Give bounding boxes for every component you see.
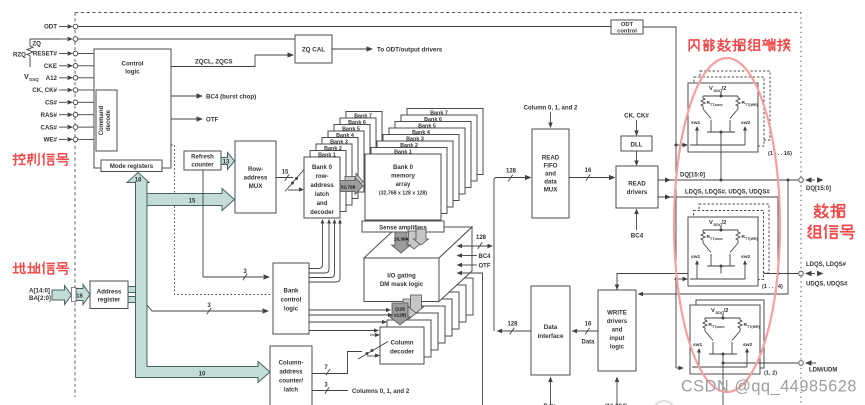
svg-text:BC4: BC4 xyxy=(479,254,492,260)
svg-text:CK, CK#: CK, CK# xyxy=(32,87,57,94)
svg-text:drivers: drivers xyxy=(627,189,648,196)
svg-text:address: address xyxy=(310,182,334,189)
svg-text:Bank 4: Bank 4 xyxy=(336,133,354,139)
svg-text:WE#: WE# xyxy=(44,137,58,144)
READ drivers xyxy=(616,166,658,208)
svg-text:Bank 0: Bank 0 xyxy=(312,164,333,171)
wire to ODT/output drivers xyxy=(332,48,367,50)
I/O gating DM mask logic 3D box xyxy=(364,227,472,258)
svg-text:Data: Data xyxy=(544,324,558,331)
bank 0-7 row-address latch and decoder stack xyxy=(346,112,382,173)
svg-text:Column: Column xyxy=(390,340,413,347)
svg-text:LDM/UDM: LDM/UDM xyxy=(809,368,837,374)
svg-text:Bank 7: Bank 7 xyxy=(430,110,448,116)
wire term3 center tap to DM and down xyxy=(722,354,724,405)
svg-text:13: 13 xyxy=(223,159,230,165)
svg-text:counter: counter xyxy=(191,162,214,169)
bottom feed wires xyxy=(550,382,552,405)
svg-text:15: 15 xyxy=(282,170,289,176)
wire ZQ to ZQ CAL xyxy=(78,38,295,40)
svg-text:register: register xyxy=(98,297,121,304)
svg-text:control: control xyxy=(281,297,302,304)
READ FIFO and data MUX xyxy=(532,129,569,218)
wire DLL to READ drivers xyxy=(636,151,638,161)
red highlight ellipse xyxy=(674,58,780,392)
svg-text:decoder: decoder xyxy=(390,349,415,356)
DQS output wire xyxy=(658,197,778,271)
wire refresh/bank-address down to bank control (3) xyxy=(202,170,204,277)
svg-text:READ: READ xyxy=(628,180,646,187)
svg-text:Refresh: Refresh xyxy=(191,154,214,161)
svg-text:(128: (128 xyxy=(395,306,405,312)
svg-text:array: array xyxy=(396,181,412,188)
svg-text:TT(WR): TT(WR) xyxy=(747,325,761,329)
svg-text:V: V xyxy=(709,86,713,92)
DLL xyxy=(621,136,652,151)
pad LDM/UDM xyxy=(799,361,804,366)
svg-text:Bank 7: Bank 7 xyxy=(354,113,372,119)
svg-text:32,768: 32,768 xyxy=(341,184,356,190)
refresh counter xyxy=(184,151,221,170)
bank control logic xyxy=(273,263,309,334)
svg-text:V: V xyxy=(709,220,713,226)
svg-text:LDQS, LDQS#, UDQS, UDQS#: LDQS, LDQS#, UDQS, UDQS# xyxy=(685,190,770,196)
command decode xyxy=(96,90,117,151)
svg-text:CK, CK#: CK, CK# xyxy=(624,113,649,120)
address bus 15 band into row-address MUX xyxy=(147,189,235,211)
address bus vertical band + 18 arrow into mode registers xyxy=(127,173,270,383)
svg-text:logic: logic xyxy=(610,344,625,351)
pin ZQ xyxy=(60,38,67,40)
ODT control block xyxy=(611,20,643,34)
svg-text:To ODT/output drivers: To ODT/output drivers xyxy=(377,47,443,54)
16 wire READ FIFO to READ drivers xyxy=(569,177,610,179)
svg-text:Bank 6: Bank 6 xyxy=(348,120,366,126)
svg-text:address: address xyxy=(244,175,268,182)
128 bidirectional bus I/O gating to data bus xyxy=(462,245,488,247)
svg-text:/2: /2 xyxy=(722,86,727,92)
svg-text:UDQS, UDQS#: UDQS, UDQS# xyxy=(806,282,848,288)
svg-text:FIFO: FIFO xyxy=(544,163,558,170)
svg-text:Control: Control xyxy=(122,61,144,68)
LDM/UDM pad wire xyxy=(723,362,798,364)
red annotation: control signals xyxy=(13,154,25,165)
svg-text:/2: /2 xyxy=(722,220,727,226)
bank 0 memory array front xyxy=(365,154,441,220)
svg-text:latch: latch xyxy=(284,387,299,394)
wire address register to bank control (3) xyxy=(147,305,262,311)
svg-text:Bank: Bank xyxy=(284,288,300,295)
svg-text:Columns 0, 1, and 2: Columns 0, 1, and 2 xyxy=(352,388,410,395)
mode registers xyxy=(101,160,162,172)
pad DQ[15:0] xyxy=(799,178,804,183)
128 bus wire to READ FIFO xyxy=(494,178,526,332)
row-address MUX xyxy=(235,141,276,213)
svg-text:ODT: ODT xyxy=(621,22,634,28)
red annotation: address signals xyxy=(13,263,25,274)
svg-text:TT(WR): TT(WR) xyxy=(745,237,759,241)
16,384 sense bus gray arrow xyxy=(406,231,423,249)
data interface xyxy=(531,286,570,375)
wire ODT control to termination switches xyxy=(643,27,676,368)
svg-text:SSQ: SSQ xyxy=(29,77,39,82)
128 bus wire from data interface xyxy=(502,330,531,332)
svg-text:TT,nom: TT,nom xyxy=(712,325,725,329)
svg-text:RZQ: RZQ xyxy=(13,52,26,59)
svg-text:DQ[15:0]: DQ[15:0] xyxy=(806,186,831,192)
svg-text:logic: logic xyxy=(284,306,299,313)
svg-text:READ: READ xyxy=(542,155,560,162)
svg-text:TT(WR): TT(WR) xyxy=(745,103,759,107)
refresh counter 13 arrow xyxy=(221,153,235,170)
svg-text:sw2: sw2 xyxy=(741,254,751,260)
svg-text:(1 . . . 4): (1 . . . 4) xyxy=(762,284,783,290)
column decoder stack xyxy=(429,278,473,315)
svg-text:16: 16 xyxy=(585,168,592,174)
svg-text:I/O gating: I/O gating xyxy=(387,273,416,280)
package boundary dashed border xyxy=(75,12,801,14)
svg-text:ODT: ODT xyxy=(44,24,57,31)
DQ[15:0] output wire xyxy=(658,179,798,181)
svg-text:latch: latch xyxy=(315,191,330,198)
svg-text:OTF: OTF xyxy=(206,117,219,124)
svg-text:RAS#: RAS# xyxy=(40,112,57,119)
32,768 row bus gray arrow xyxy=(345,174,363,190)
svg-text:MUX: MUX xyxy=(544,187,558,194)
svg-text:MUX: MUX xyxy=(249,183,264,190)
wire term2 center tap to DQS xyxy=(720,266,722,274)
svg-text:DLL: DLL xyxy=(630,141,642,148)
svg-text:x128): x128) xyxy=(394,313,407,319)
svg-text:Row-: Row- xyxy=(248,166,263,173)
bank select wires from bank control logic xyxy=(309,222,323,269)
svg-text:16,384: 16,384 xyxy=(394,236,409,242)
svg-text:(1 . . . 16): (1 . . . 16) xyxy=(768,151,792,157)
svg-text:TT,nom: TT,nom xyxy=(710,237,723,241)
svg-text:18: 18 xyxy=(135,178,142,184)
sense amplifiers xyxy=(362,221,444,232)
svg-text:memory: memory xyxy=(391,173,415,180)
bank 0-7 memory array stack xyxy=(407,109,483,175)
svg-text:BA[2:0]: BA[2:0] xyxy=(29,295,51,302)
svg-text:BC4 (burst chop): BC4 (burst chop) xyxy=(206,94,256,101)
svg-text:(1, 2): (1, 2) xyxy=(764,371,777,377)
svg-text:TT,nom: TT,nom xyxy=(710,103,723,107)
svg-text:15: 15 xyxy=(189,198,196,204)
svg-text:counter/: counter/ xyxy=(279,378,303,385)
svg-text:control: control xyxy=(617,29,637,35)
svg-text:drivers: drivers xyxy=(607,318,628,325)
control logic U1 xyxy=(94,49,171,168)
DQ write-path wire into WRITE drivers xyxy=(643,180,788,294)
svg-text:Bank 2: Bank 2 xyxy=(324,146,342,152)
svg-text:OTF: OTF xyxy=(479,264,491,270)
svg-text:ZQCL, ZQCS: ZQCL, ZQCS xyxy=(195,59,232,66)
svg-text:10: 10 xyxy=(199,372,206,378)
svg-text:Bank 3: Bank 3 xyxy=(330,139,348,145)
WRITE drivers and input logic xyxy=(598,290,636,371)
svg-text:CKE: CKE xyxy=(44,63,57,70)
svg-text:Bank 5: Bank 5 xyxy=(342,126,360,132)
svg-text:Column-: Column- xyxy=(279,360,304,367)
svg-text:(32,768 x 128 x 128): (32,768 x 128 x 128) xyxy=(379,191,427,197)
svg-text:16: 16 xyxy=(585,322,592,328)
3 wire columns 0,1,2 xyxy=(312,390,348,392)
svg-text:CS#: CS# xyxy=(45,100,58,107)
dotted config wire to bank control xyxy=(171,145,272,295)
wire OTF xyxy=(171,118,197,120)
svg-text:ZQ CAL: ZQ CAL xyxy=(302,47,325,54)
svg-text:Command: Command xyxy=(99,106,105,136)
svg-text:and: and xyxy=(317,200,328,207)
svg-text:/2: /2 xyxy=(724,308,729,314)
svg-text:Bank 4: Bank 4 xyxy=(412,130,430,136)
svg-text:LDQS, LDQS#: LDQS, LDQS# xyxy=(806,262,847,268)
svg-text:sw1: sw1 xyxy=(691,120,701,126)
svg-text:DQ[15:0]: DQ[15:0] xyxy=(680,173,705,179)
svg-text:Bank 2: Bank 2 xyxy=(400,143,418,149)
OTF into I/O gating xyxy=(462,264,477,266)
svg-text:sw2: sw2 xyxy=(741,120,751,126)
7 wire to column decoder fan xyxy=(312,352,362,374)
resistor RZQ xyxy=(30,38,60,40)
svg-text:Column 0, 1, and 2: Column 0, 1, and 2 xyxy=(524,105,578,112)
svg-text:ZQ: ZQ xyxy=(32,41,41,48)
svg-text:and: and xyxy=(612,327,623,334)
svg-text:decode: decode xyxy=(106,109,112,131)
svg-text:DM mask logic: DM mask logic xyxy=(380,281,424,288)
svg-text:logic: logic xyxy=(125,69,140,76)
svg-text:V: V xyxy=(711,308,715,314)
svg-text:and: and xyxy=(545,171,556,178)
svg-text:BC4: BC4 xyxy=(631,233,644,240)
svg-text:interface: interface xyxy=(538,333,564,340)
(128 x128) column bus gray arrow xyxy=(401,299,418,319)
svg-text:sw1: sw1 xyxy=(693,342,703,348)
red annotation: internal data group termination xyxy=(689,40,699,51)
svg-text:address: address xyxy=(279,369,303,376)
svg-text:decoder: decoder xyxy=(310,209,334,216)
svg-text:A[14:0]: A[14:0] xyxy=(29,288,50,295)
svg-text:128: 128 xyxy=(506,169,517,175)
bank select wires to column decoders xyxy=(309,309,386,311)
write data into I/O gating xyxy=(462,273,483,405)
svg-text:Data: Data xyxy=(581,340,595,346)
BC4 into I/O gating xyxy=(462,255,477,257)
svg-text:CSDN @qq_44985628: CSDN @qq_44985628 xyxy=(681,378,857,396)
svg-text:Bank 0: Bank 0 xyxy=(393,164,414,171)
termination group DQ (RTT sw1 sw2) xyxy=(700,71,770,140)
red annotation: data group signals xyxy=(815,204,828,217)
wire BC4 (burst chop) xyxy=(171,95,197,97)
svg-text:128: 128 xyxy=(507,322,518,328)
wire ZQCL,ZQCS xyxy=(171,55,289,67)
svg-text:WRITE: WRITE xyxy=(607,310,627,317)
svg-text:CAS#: CAS# xyxy=(40,124,57,131)
svg-text:sw1: sw1 xyxy=(691,254,701,260)
svg-text:A12: A12 xyxy=(46,75,58,82)
svg-text:row-: row- xyxy=(316,173,329,180)
ZQ CAL block xyxy=(295,35,332,63)
svg-text:sw2: sw2 xyxy=(743,342,753,348)
16 Data wire WRITE to data interface xyxy=(577,330,598,332)
svg-text:Bank 5: Bank 5 xyxy=(418,123,436,129)
svg-text:Bank 3: Bank 3 xyxy=(406,136,424,142)
column-address counter/latch xyxy=(270,346,312,405)
15 bus MUX to latch fan xyxy=(276,177,293,179)
svg-text:Address: Address xyxy=(97,289,122,296)
svg-text:input: input xyxy=(610,335,625,342)
termination group DQS xyxy=(699,204,769,273)
wire ODT to ODT control xyxy=(78,26,611,28)
DQS pad wire through termination xyxy=(617,274,798,291)
address register xyxy=(128,287,136,293)
wire term1 center tap to DQ xyxy=(720,132,722,180)
svg-text:data: data xyxy=(544,179,557,186)
svg-text:Bank 6: Bank 6 xyxy=(424,117,442,123)
svg-text:Mode registers: Mode registers xyxy=(110,163,154,170)
svg-text:18: 18 xyxy=(76,293,83,299)
svg-text:RESET#: RESET# xyxy=(33,51,58,58)
svg-text:128: 128 xyxy=(476,235,487,241)
termination group DM xyxy=(696,300,764,368)
